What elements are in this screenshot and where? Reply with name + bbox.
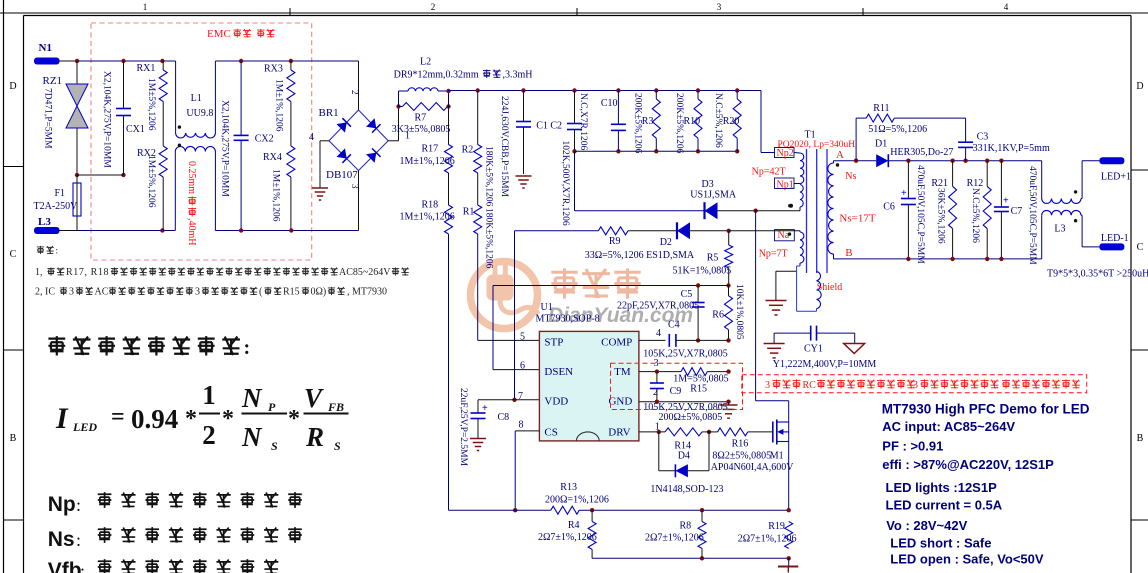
watermark logo <box>471 262 539 329</box>
formula title <box>48 336 240 355</box>
svg-text:RX4: RX4 <box>263 152 282 163</box>
svg-text:1: 1 <box>143 2 148 12</box>
resistor R8 <box>698 522 706 549</box>
svg-text::: : <box>76 495 81 515</box>
svg-text:R2: R2 <box>462 145 474 156</box>
winding Na <box>800 232 804 263</box>
svg-text:1M±1%,1206: 1M±1%,1206 <box>270 169 280 222</box>
inductor L2 <box>398 91 400 107</box>
svg-text:LED+1: LED+1 <box>1101 172 1131 183</box>
svg-text:102K,500V,X7R,1206: 102K,500V,X7R,1206 <box>560 141 570 226</box>
svg-text:1: 1 <box>202 380 216 410</box>
terminal LED-1 <box>1099 243 1124 250</box>
svg-text:*: * <box>185 406 197 432</box>
TM dashed box <box>611 363 743 409</box>
svg-text:D2: D2 <box>660 237 672 248</box>
wire top rail <box>215 60 358 62</box>
svg-text:CY1: CY1 <box>804 344 823 355</box>
diode D1 <box>876 154 888 167</box>
bridge BR1 <box>358 61 360 110</box>
wire VDD net <box>514 231 516 400</box>
svg-text:FB: FB <box>327 400 344 414</box>
svg-text:Shield: Shield <box>817 282 843 293</box>
winding Np2 <box>800 153 804 184</box>
svg-text:AC input: AC85~264V: AC input: AC85~264V <box>882 419 1015 434</box>
transistor M1 <box>772 422 774 443</box>
capacitor C10 <box>617 91 619 125</box>
svg-text:P: P <box>268 400 276 414</box>
svg-text:Vfb: Vfb <box>48 559 82 573</box>
svg-text:R13: R13 <box>560 482 577 493</box>
varistor RZ1 <box>76 61 78 84</box>
terminal L3 <box>34 227 60 234</box>
svg-text:Np: Np <box>48 493 76 516</box>
capacitor C8 <box>478 399 515 401</box>
svg-text:200Ω±5%,0805: 200Ω±5%,0805 <box>659 412 723 423</box>
svg-text:L3: L3 <box>38 216 51 228</box>
svg-text:R7: R7 <box>415 113 427 124</box>
svg-text:224J,630V,CBB,P=15MM: 224J,630V,CBB,P=15MM <box>499 96 509 198</box>
svg-text:+: + <box>1003 196 1009 207</box>
svg-text:MT7930 High PFC Demo for LED: MT7930 High PFC Demo for LED <box>882 402 1090 417</box>
svg-text:1,: 1, <box>35 267 43 278</box>
svg-text:331K,1KV,P=5mm: 331K,1KV,P=5mm <box>973 143 1050 154</box>
svg-text:Na: Na <box>778 230 790 241</box>
resistor R1 <box>474 205 482 234</box>
svg-text:L1: L1 <box>191 93 202 104</box>
svg-text:6: 6 <box>520 361 525 372</box>
svg-text:DRV: DRV <box>608 427 630 439</box>
svg-text:1: 1 <box>405 131 410 142</box>
svg-text:R1: R1 <box>463 207 475 218</box>
svg-text:7D471,P=5MM: 7D471,P=5MM <box>42 88 52 149</box>
svg-text:2: 2 <box>350 90 360 95</box>
svg-text:Np=42T: Np=42T <box>752 167 786 178</box>
svg-text:R15: R15 <box>690 384 707 395</box>
svg-text:LED lights :12S1P: LED lights :12S1P <box>886 480 998 495</box>
svg-text:effi : >87%@AC220V, 12S1P: effi : >87%@AC220V, 12S1P <box>882 457 1054 472</box>
svg-text:5: 5 <box>520 332 525 343</box>
svg-text:R18: R18 <box>422 200 439 211</box>
svg-text:Ns=17T: Ns=17T <box>839 213 875 225</box>
svg-text:X2,104K,275V,P=10MM: X2,104K,275V,P=10MM <box>219 100 229 197</box>
svg-text:C: C <box>10 249 17 260</box>
svg-text:0.94: 0.94 <box>131 404 178 434</box>
svg-text:RX3: RX3 <box>264 64 283 75</box>
svg-text:C4: C4 <box>668 320 680 331</box>
svg-text:DR9*12mm,0.32mm: DR9*12mm,0.32mm <box>394 70 479 81</box>
capacitor C9 <box>656 372 658 383</box>
notes text <box>37 246 54 254</box>
svg-text:L3: L3 <box>1054 224 1065 235</box>
svg-text:R8: R8 <box>680 521 692 532</box>
svg-text:51Ω=5%,1206: 51Ω=5%,1206 <box>868 124 927 135</box>
svg-text:F1: F1 <box>55 188 66 199</box>
svg-text:MT7930,SOP-8: MT7930,SOP-8 <box>536 314 600 325</box>
wire C2 net <box>575 150 738 152</box>
svg-text::: : <box>80 561 85 573</box>
svg-text:=: = <box>111 404 125 430</box>
svg-text:8: 8 <box>519 420 524 431</box>
capacitor C3 <box>958 141 973 143</box>
svg-text:3: 3 <box>350 184 360 189</box>
watermark text <box>551 268 640 298</box>
svg-text:Ns: Ns <box>48 528 75 551</box>
wire DRV <box>639 431 665 433</box>
resistor R2 <box>477 91 479 145</box>
svg-text:D: D <box>1136 81 1143 92</box>
resistor R9 <box>515 230 599 232</box>
svg-text:R11: R11 <box>873 103 889 114</box>
capacitor C5 <box>697 286 699 303</box>
resistor R15 <box>681 368 707 376</box>
note dashed box <box>742 375 1087 393</box>
svg-text:I: I <box>55 402 69 435</box>
winding Ns <box>828 163 834 254</box>
svg-text:N1: N1 <box>39 42 52 54</box>
diode D4 <box>658 432 660 471</box>
resistor R20 <box>736 91 738 99</box>
inductor L3 output <box>1041 161 1043 199</box>
svg-text:T2A-250V: T2A-250V <box>34 201 79 212</box>
svg-text:B: B <box>1137 433 1144 444</box>
resistor RX1 <box>162 61 164 70</box>
capacitor C1 <box>523 91 525 122</box>
svg-text:*: * <box>222 406 234 432</box>
resistor R16 <box>718 428 748 436</box>
svg-text:R9: R9 <box>609 236 621 247</box>
svg-text:C3: C3 <box>977 132 989 143</box>
svg-text:US1J,SMA: US1J,SMA <box>690 190 737 201</box>
svg-text:200K±5%,1206: 200K±5%,1206 <box>632 93 642 154</box>
wire N rail <box>60 60 78 62</box>
svg-text::: : <box>56 246 59 256</box>
svg-text:4: 4 <box>656 328 661 339</box>
ground IC <box>720 404 738 406</box>
svg-text:STP: STP <box>544 337 563 349</box>
wire drain net <box>755 211 757 401</box>
svg-text:200K±5%,1206: 200K±5%,1206 <box>674 93 684 154</box>
svg-text:R15: R15 <box>283 287 300 298</box>
svg-text:2: 2 <box>202 420 216 450</box>
svg-text::: : <box>76 530 81 550</box>
svg-text:1M±1%,1206: 1M±1%,1206 <box>400 156 455 167</box>
wire CS <box>515 430 539 432</box>
svg-text:2: 2 <box>431 2 436 12</box>
svg-text:Y1,222M,400V,P=10MM: Y1,222M,400V,P=10MM <box>773 359 877 370</box>
svg-text:4: 4 <box>1004 2 1009 12</box>
capacitor CY1 <box>774 332 811 334</box>
svg-text:TM: TM <box>614 366 631 378</box>
resistor R12 <box>986 161 988 187</box>
resistor R10 <box>697 91 699 99</box>
svg-text:C8: C8 <box>498 412 510 423</box>
svg-text:R10: R10 <box>684 116 701 127</box>
svg-text:S: S <box>271 439 278 453</box>
svg-text:2Ω7±1%,1206: 2Ω7±1%,1206 <box>738 534 797 545</box>
svg-text:C1 C2: C1 C2 <box>536 121 562 132</box>
svg-text:LED current = 0.5A: LED current = 0.5A <box>886 497 1003 512</box>
svg-text:R17: R17 <box>422 144 439 155</box>
resistor R11 <box>855 118 857 161</box>
resistor R21 <box>952 161 954 187</box>
resistor R14 <box>665 428 702 436</box>
svg-text:1M±5%,1206: 1M±5%,1206 <box>146 78 156 131</box>
resistor R3 <box>655 91 657 99</box>
EMC dashed box <box>91 23 312 260</box>
svg-text:R5: R5 <box>707 253 719 264</box>
svg-text:U1: U1 <box>541 302 553 313</box>
svg-text:B: B <box>10 433 17 444</box>
port Np1 <box>775 178 795 189</box>
svg-text:EMC: EMC <box>207 28 231 40</box>
svg-text:L2: L2 <box>420 57 431 68</box>
svg-text:X2,104K,275V,P=10MM: X2,104K,275V,P=10MM <box>101 71 111 168</box>
svg-text:T1: T1 <box>805 130 816 141</box>
svg-text:BR1: BR1 <box>319 107 339 119</box>
svg-text:UU9.8: UU9.8 <box>186 108 213 119</box>
wire L rail <box>77 230 175 232</box>
svg-text:180K±5%,1206: 180K±5%,1206 <box>483 146 493 207</box>
svg-text:LED-1: LED-1 <box>1101 233 1129 244</box>
svg-text:R20: R20 <box>723 116 740 127</box>
svg-text:R16: R16 <box>732 439 749 450</box>
svg-text:AP04N60I,4A,600V: AP04N60I,4A,600V <box>711 462 795 473</box>
border frame <box>3 0 5 573</box>
resistor R7 <box>399 106 403 108</box>
svg-text:VDD: VDD <box>544 396 568 408</box>
svg-text:S: S <box>334 439 341 453</box>
wire bottom rail <box>215 230 358 232</box>
resistor RX4 <box>287 146 295 177</box>
svg-text:R: R <box>305 422 324 452</box>
winding Np1 <box>800 185 803 208</box>
svg-text:+: + <box>482 403 488 414</box>
svg-text:AC: AC <box>95 287 109 298</box>
diode D3 <box>705 202 718 219</box>
node B wire <box>834 258 1042 260</box>
svg-text:C7: C7 <box>1011 206 1023 217</box>
svg-text:AC85~264V: AC85~264V <box>339 267 391 278</box>
svg-text:LED open : Safe, Vo<50V: LED open : Safe, Vo<50V <box>890 552 1044 567</box>
svg-text:.: . <box>996 380 999 391</box>
svg-text:*: * <box>288 406 300 432</box>
svg-text:,3.3mH: ,3.3mH <box>503 70 533 81</box>
capacitor C4 <box>639 339 666 341</box>
svg-text:2Ω7±1%,1206: 2Ω7±1%,1206 <box>645 533 704 544</box>
svg-text:D: D <box>9 81 16 92</box>
svg-text:RZ1: RZ1 <box>43 75 63 87</box>
wire sense rail <box>592 557 789 559</box>
svg-text:Vo : 28V~42V: Vo : 28V~42V <box>886 518 967 533</box>
port Na <box>775 230 795 241</box>
svg-text:Np1: Np1 <box>777 180 794 191</box>
wire DC bus <box>449 90 762 92</box>
svg-text:2, IC: 2, IC <box>35 287 55 298</box>
resistor R13 <box>449 509 551 511</box>
resistor R19 <box>785 522 793 549</box>
svg-text:T9*5*3,0.35*6T >250uH: T9*5*3,0.35*6T >250uH <box>1047 269 1148 280</box>
svg-text:3: 3 <box>717 2 722 12</box>
svg-text:R17, R18: R17, R18 <box>66 267 109 278</box>
svg-text:LED short : Safe: LED short : Safe <box>890 536 991 551</box>
svg-text::: : <box>244 337 251 359</box>
svg-text:C10: C10 <box>601 98 618 109</box>
svg-text:D3: D3 <box>702 179 714 190</box>
svg-text:3: 3 <box>913 380 918 391</box>
wire GND <box>639 401 729 403</box>
svg-text:0.25mm: 0.25mm <box>186 161 197 194</box>
svg-text:RC: RC <box>803 380 817 391</box>
svg-text:,40mH: ,40mH <box>186 218 197 246</box>
svg-text:470uF,50V,105C,P=5MM: 470uF,50V,105C,P=5MM <box>915 165 925 264</box>
ground C1 <box>516 175 532 177</box>
svg-text:C6: C6 <box>883 202 895 213</box>
svg-text:1M±1%,1206: 1M±1%,1206 <box>273 79 283 132</box>
svg-text:GND: GND <box>608 396 632 408</box>
svg-text:3: 3 <box>195 287 200 298</box>
svg-text:R4: R4 <box>568 520 580 531</box>
shield winding <box>796 271 798 311</box>
ground C8 <box>470 438 486 440</box>
wire TM <box>639 371 681 373</box>
svg-text:3: 3 <box>765 380 770 391</box>
svg-text:N.C±5%,1206: N.C±5%,1206 <box>970 188 980 243</box>
node rect out <box>396 104 400 108</box>
IC U1 MT7930 <box>539 331 639 441</box>
svg-text:C5: C5 <box>681 289 693 300</box>
svg-text:3K3±5%,0805: 3K3±5%,0805 <box>392 124 451 135</box>
svg-text:V: V <box>304 383 324 413</box>
svg-text:51K=1%,0805: 51K=1%,0805 <box>673 266 732 277</box>
svg-text:Np=7T: Np=7T <box>759 249 788 260</box>
svg-text:, MT7930: , MT7930 <box>347 287 387 298</box>
svg-text:105K,25V,X7R,0805: 105K,25V,X7R,0805 <box>643 349 728 360</box>
svg-text:2Ω7±1%,1206: 2Ω7±1%,1206 <box>538 532 597 543</box>
svg-text:C9: C9 <box>670 386 682 397</box>
resistor R17 <box>448 107 450 145</box>
svg-text:Ns: Ns <box>845 171 856 182</box>
svg-text:D1: D1 <box>875 139 887 150</box>
svg-text:200Ω=1%,1206: 200Ω=1%,1206 <box>545 495 609 506</box>
ground sense <box>788 558 790 565</box>
svg-text:N: N <box>241 422 263 452</box>
svg-text:33Ω=5%,1206 ES1D,SMA: 33Ω=5%,1206 ES1D,SMA <box>585 250 695 261</box>
svg-text:N.C,X7R,1206: N.C,X7R,1206 <box>578 93 588 151</box>
wire DSEN net <box>493 285 729 287</box>
svg-text:22uF,25V,P=2.5MM: 22uF,25V,P=2.5MM <box>458 388 468 467</box>
svg-text:4: 4 <box>309 132 314 143</box>
svg-text:A: A <box>836 149 844 161</box>
svg-text:DSEN: DSEN <box>544 366 573 378</box>
svg-text:R3: R3 <box>642 116 654 127</box>
svg-text:B: B <box>845 247 852 259</box>
terminal LED+1 <box>1099 157 1124 164</box>
capacitor C7 <box>1000 161 1002 207</box>
svg-text:1N4148,SOD-123: 1N4148,SOD-123 <box>650 484 723 495</box>
svg-text:180K±5%,1206: 180K±5%,1206 <box>483 208 493 269</box>
svg-text:1M±5%,1206: 1M±5%,1206 <box>146 155 156 208</box>
resistor R18 <box>445 205 453 234</box>
earth symbol <box>854 333 856 343</box>
svg-text:R19: R19 <box>768 521 785 532</box>
svg-text:PF : >0.91: PF : >0.91 <box>882 438 943 453</box>
svg-text:Np2: Np2 <box>777 148 794 159</box>
resistor R5 <box>728 231 730 245</box>
svg-text:M1: M1 <box>770 451 784 462</box>
svg-text:470uF,50V,105C,P=5MM: 470uF,50V,105C,P=5MM <box>1027 166 1037 265</box>
svg-text:8Ω2±5%,0805: 8Ω2±5%,0805 <box>712 451 771 462</box>
ground CY1 <box>764 343 785 345</box>
svg-text:C: C <box>1137 242 1144 253</box>
svg-text:+: + <box>901 188 907 199</box>
ground primary <box>312 187 328 189</box>
svg-text:LED: LED <box>72 420 97 434</box>
node A wire <box>834 160 877 162</box>
resistor RX3 <box>290 61 292 70</box>
capacitor CX1 <box>123 61 125 109</box>
svg-text:COMP: COMP <box>601 337 632 349</box>
resistor RX2 <box>159 146 167 177</box>
port Np2 <box>775 148 795 158</box>
svg-text:R6: R6 <box>712 310 724 321</box>
capacitor C6 <box>907 161 909 199</box>
terminal N1 <box>34 58 60 65</box>
capacitor C2 <box>574 91 576 124</box>
svg-text:0Ω): 0Ω) <box>311 287 327 298</box>
svg-text:10K±1%,0805: 10K±1%,0805 <box>734 284 744 340</box>
svg-text:7: 7 <box>518 391 523 402</box>
svg-text:22pF,25V,X7R,0805: 22pF,25V,X7R,0805 <box>617 301 699 312</box>
choke L1 <box>175 61 177 133</box>
svg-text:DB107: DB107 <box>326 169 358 181</box>
svg-text:1M±1%,1206: 1M±1%,1206 <box>400 212 455 223</box>
svg-text:CX2: CX2 <box>255 134 274 145</box>
resistor R4 <box>588 522 596 550</box>
svg-text:N.C±5%,1206: N.C±5%,1206 <box>713 93 723 148</box>
capacitor CX2 <box>240 61 242 135</box>
fuse F1 <box>76 175 78 231</box>
svg-text:3: 3 <box>69 287 74 298</box>
diode D2 <box>677 222 690 239</box>
resistor R6 <box>725 296 733 330</box>
svg-text:36K±5%,1206: 36K±5%,1206 <box>935 188 945 244</box>
svg-text:N: N <box>241 383 263 413</box>
svg-text:HER305,Do-27: HER305,Do-27 <box>890 147 953 158</box>
svg-text:CS: CS <box>544 427 557 439</box>
svg-text:D4: D4 <box>678 451 690 462</box>
svg-text:CX1: CX1 <box>126 124 145 135</box>
ground aux <box>766 300 787 302</box>
svg-text:RX1: RX1 <box>137 63 156 74</box>
